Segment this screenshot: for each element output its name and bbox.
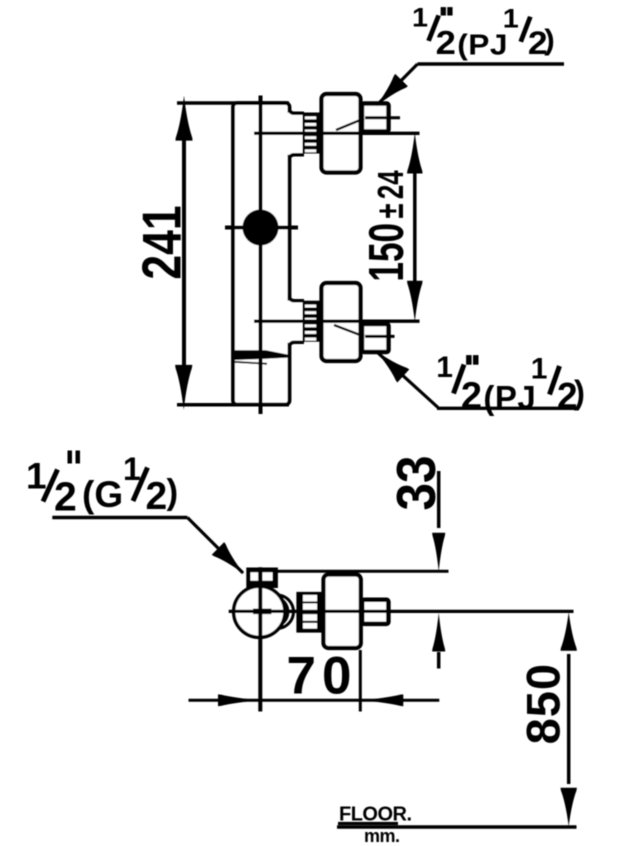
bottom fitting neck bottom edge [289,342,304,348]
dim 150 bottom arrow [407,281,423,322]
dim 850 top arrow [561,612,577,651]
bottom fitting knurled nut [303,301,321,342]
handle screw knob [243,210,279,246]
knob center tick [225,226,298,230]
top fitting horizontal center line [254,132,420,135]
bottom fitting eccentric diagonal [334,325,364,337]
label PJ top: text [412,2,555,61]
spout wedge [234,350,289,360]
label G leader [187,518,243,574]
dim 33 upper arrow [432,533,445,572]
svg-text:(PJ: (PJ [483,379,536,416]
back arc inner [276,597,288,627]
floor line [337,825,577,829]
top fitting: neck white-out [286,113,303,155]
label G arrow [212,542,250,580]
svg-text:mm.: mm. [364,826,400,846]
dim 33 lower arrow [432,613,445,652]
floor label underline [338,822,398,825]
dim 850 dimension line [567,654,571,784]
svg-text:1: 1 [123,451,141,487]
dim 150 top arrow [407,133,423,174]
bottom fitting pipe nut [362,324,389,352]
svg-text:): ) [574,374,585,411]
dim 70 dimension line [189,699,440,702]
dim 33 lower line [437,652,441,669]
top fitting eccentric union body [322,94,361,173]
svg-text:2: 2 [146,475,168,518]
mixer body outline [233,103,290,405]
svg-text:33: 33 [387,455,448,510]
bottom fitting horizontal center line [254,320,420,323]
G fitting windows [251,572,259,580]
dim 70 right extension [359,650,362,712]
dim 241 bottom extension line [177,403,289,407]
label PJ top leader [378,64,418,105]
svg-text:1: 1 [436,351,453,384]
svg-text:1: 1 [531,352,548,385]
bottom fitting: neck white-out [286,301,303,343]
dim 33 upper line [437,471,441,528]
top fitting neck top edge [289,107,304,113]
label G: text [26,451,178,520]
dim 241 bottom arrow [175,365,192,410]
bottom view eccentric union body [324,575,361,649]
svg-text:2: 2 [54,474,77,520]
top fitting neck bottom edge [289,155,304,161]
top fitting nut center line [365,116,400,119]
label G underline [52,516,187,520]
svg-text:(G: (G [82,474,123,515]
bottom fitting eccentric union body [322,283,361,361]
dim 70 right arrow [360,694,403,706]
label PJ bottom: text [436,351,585,418]
bottom view knurled nut [296,592,321,633]
svg-text:850: 850 [517,663,570,744]
dim 33 extension line [277,570,449,573]
spout lower line [234,362,267,364]
dim 850 bottom arrow [561,788,577,827]
bottom fitting nut center line [365,335,395,338]
dim 241 dimension line [182,138,186,368]
G fitting block [246,568,278,589]
label PJ bottom underline [437,407,579,410]
label PJ bottom arrow [370,345,409,383]
svg-text:241: 241 [131,205,193,279]
label PJ bottom leader [378,353,439,408]
dim 70 left arrow [218,694,261,706]
bottom view horizontal center line [229,610,574,613]
svg-text:): ) [167,473,179,512]
label PJ top underline [418,62,565,65]
label PJ top arrow [370,74,408,113]
dim 241 top arrow [175,96,192,141]
dim 150 dimension line [413,170,417,284]
svg-text:2: 2 [461,376,482,418]
back arc outer [278,595,294,629]
circle center tick [253,609,272,615]
top fitting knurled nut [303,113,321,154]
svg-text:1: 1 [26,456,47,497]
top fitting eccentric diagonal [336,119,364,131]
svg-text:150±24: 150±24 [359,170,414,282]
bottom view vertical center line [258,567,262,711]
valve circle [234,586,285,637]
dim 241 top extension line [177,101,289,105]
bottom fitting neck top edge [289,295,304,301]
svg-text:70: 70 [287,647,358,706]
body vertical center line [259,96,263,415]
bottom view pipe nut [362,600,388,624]
top fitting pipe nut [362,104,389,132]
